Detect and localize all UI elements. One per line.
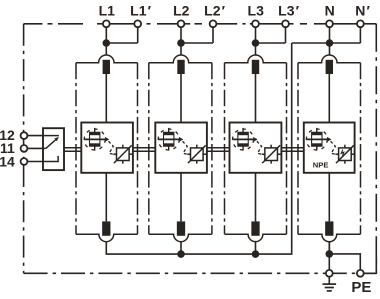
wire: L3&#8242; across to node (256, 42, 286, 44)
plug-in contact arch (top) module NPE (298, 55, 361, 63)
device enclosure border: bottom edge (24, 272, 377, 274)
thermal disconnect device (bottom) module 3 (251, 221, 259, 235)
switch lever (common 11) (43, 147, 46, 149)
svg-text:N ′: N ′ (355, 2, 370, 18)
thermal monitor symbol (dashed circle) module 2 (158, 129, 179, 150)
wire: terminal L2&#8242; down (212, 24, 214, 43)
wire: remote-signal bus (lower) (64, 150, 304, 152)
wire: terminal L3&#8242; down (285, 24, 287, 43)
plug-in contact arch (top) module 2 (149, 55, 212, 63)
wire: N node horizontal (292, 42, 330, 44)
plug-in contact arch (top) module 3 (225, 55, 287, 63)
device enclosure border: top edge (dash-dot with feed-through links) (24, 23, 377, 25)
terminal L1p (134, 20, 141, 27)
thermal disconnect device (bottom) module 1 (102, 221, 110, 235)
spark-gap bolt mark (341, 150, 344, 158)
module 2 boundary (dash-dot enclosure) (149, 63, 212, 235)
module NPE boundary (dash-dot enclosure) (298, 63, 361, 235)
plug-in contact arch (bottom) module 2 (149, 234, 212, 241)
wire: bottom arch to bus, module 1 (105, 242, 107, 255)
wire: bottom arch to bus, module NPE (328, 242, 330, 255)
wire: PE to border corner (364, 258, 377, 273)
svg-text:L1 ′: L1 ′ (130, 2, 152, 18)
wire: bottom arch to bus, module 3 (255, 242, 257, 255)
disconnector contact block module NPE (306, 128, 327, 151)
disconnector contact block module 2 (158, 128, 179, 151)
actuation arrow module 1 (105, 137, 109, 142)
thermal monitor symbol (dashed circle) module NPE (306, 129, 327, 150)
terminal 14 (21, 158, 28, 165)
terminal 11 (21, 145, 28, 152)
junction: NPE/PE node (326, 250, 334, 258)
wire: terminal N down to node (329, 24, 331, 56)
terminal L2 (178, 20, 185, 27)
module 1 boundary (dash-dot enclosure) (76, 63, 138, 235)
thermal disconnect device (top) module NPE (326, 60, 333, 74)
svg-text:L3 ′: L3 ′ (278, 2, 300, 18)
wire: terminal N&#8242; down (359, 24, 361, 43)
thermal disconnect device (top) module 1 (103, 60, 110, 74)
actuation arrow module NPE (327, 137, 331, 142)
varistor MOV module 1 (square with diagonal) (113, 145, 132, 164)
plug-in contact arch (bottom) module NPE (298, 234, 361, 241)
wire: terminal 12 to switch (24, 135, 43, 137)
actuation arrow module 2 (179, 137, 183, 142)
wire: disconnect to module box 3 (255, 74, 257, 123)
svg-text:L3: L3 (248, 2, 265, 18)
wire: L2&#8242; across to node (181, 42, 213, 44)
plug-in contact arch (bottom) module 3 (225, 234, 287, 241)
terminal L2p (210, 20, 217, 27)
terminal Np (357, 20, 364, 27)
wire: branch to PE terminal (329, 254, 360, 270)
remote signalling changeover switch box (43, 128, 64, 170)
actuation arrow module 3 (253, 137, 257, 142)
wire: bottom arch to bus, module 2 (180, 242, 182, 255)
svg-text:L1: L1 (99, 2, 116, 18)
junction node L1 (103, 39, 111, 47)
plug-in contact arch (bottom) module 1 (76, 234, 138, 241)
wire: terminal L2 down to node (180, 24, 182, 56)
device enclosure border: left edge (23, 24, 25, 273)
wire: terminal 14 to switch (24, 161, 43, 163)
ground (earth symbol) (323, 284, 337, 291)
actuation linkage (dashed zigzag) module 1 (109, 141, 116, 155)
wire: disconnect to module box 2 (180, 74, 182, 123)
protection module box 1 (81, 123, 133, 173)
varistor MOV module 2 (square with diagonal) (187, 145, 206, 164)
varistor MOV module 3 (square with diagonal) (262, 145, 281, 164)
svg-text:L2: L2 (173, 2, 190, 18)
svg-text:14: 14 (0, 154, 15, 170)
thermal monitor symbol (dashed circle) module 1 (84, 129, 105, 150)
thermal disconnect device (top) module 3 (252, 60, 259, 74)
wire: module box 2 to bottom disconnect (180, 173, 182, 222)
terminal L3p (282, 20, 289, 27)
wire: disconnect to module box 1 (105, 74, 107, 123)
junction node L2 (177, 39, 185, 47)
disconnector contact block module 3 (233, 128, 254, 151)
switch lever arrowhead (54, 137, 59, 141)
actuation linkage (dashed zigzag) module 3 (257, 141, 264, 155)
terminal N (326, 20, 333, 27)
wire: disconnect to module box NPE (328, 74, 330, 123)
plug-in contact arch (top) module 1 (76, 55, 138, 63)
wire: terminal L1 down to node (105, 24, 107, 56)
junction: module 2 on bus (177, 250, 185, 258)
wire: remote-signal bus (upper) (64, 147, 304, 149)
disconnector contact block module 1 (84, 128, 105, 151)
terminal 12 (21, 132, 28, 139)
wire: earth stem (328, 276, 330, 284)
protection module box 3 (230, 123, 282, 173)
svg-text:NPE: NPE (313, 161, 329, 170)
junction node L3 (252, 39, 260, 47)
terminal L1 (103, 20, 110, 27)
wire: N&#8242; across to node (330, 42, 361, 44)
thermal monitor symbol (dashed circle) module 3 (233, 129, 254, 150)
terminal L3 (252, 20, 259, 27)
svg-text:PE: PE (351, 279, 371, 296)
spark gap N-PE (square with diagonal and bolt) (335, 145, 354, 164)
wire: L1&#8242; across to node (106, 42, 137, 44)
wire: terminal 11 to switch (24, 147, 43, 149)
wire: terminal L3 down to node (255, 24, 257, 56)
thermal disconnect device (bottom) module 2 (177, 221, 185, 235)
actuation linkage (dashed zigzag) module 2 (183, 141, 190, 155)
terminal earth (326, 270, 333, 277)
wire: module box 3 to bottom disconnect (255, 173, 257, 222)
junction node N (326, 39, 334, 47)
wire: terminal L1&#8242; down (137, 24, 139, 43)
wire: NPE module to earth terminal (328, 242, 330, 270)
switch contact 12 (43, 135, 59, 137)
device enclosure border: right edge (375, 24, 377, 273)
thermal disconnect device (bottom) module NPE (325, 221, 333, 235)
module 3 boundary (dash-dot enclosure) (225, 63, 287, 235)
switch contact 14 (43, 156, 58, 162)
junction: module 3 on bus (252, 250, 260, 258)
wire: MOV common bus riser to N node (106, 43, 291, 254)
actuation linkage (dashed zigzag) module NPE (331, 141, 338, 155)
protection module box NPE (304, 123, 355, 173)
wire: module box 1 to bottom disconnect (105, 173, 107, 222)
svg-text:N: N (325, 2, 335, 18)
thermal disconnect device (top) module 2 (177, 60, 184, 74)
svg-text:L2 ′: L2 ′ (204, 2, 226, 18)
terminal PE (357, 270, 364, 277)
wire: module box NPE to bottom disconnect (328, 173, 330, 222)
protection module box 2 (155, 123, 207, 173)
